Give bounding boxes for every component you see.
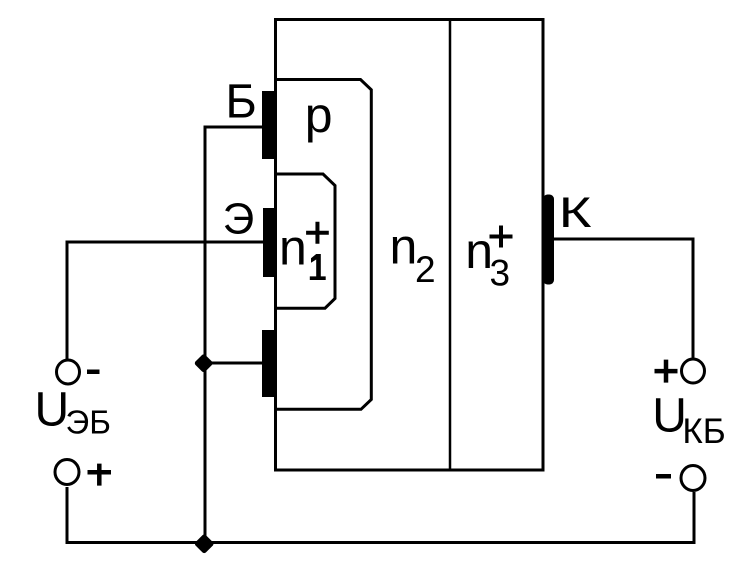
n2/n3 junction divider line — [449, 20, 452, 471]
wire right vertical to bottom rail — [693, 492, 696, 544]
wire junction to lower base contact — [204, 362, 263, 365]
svg-text:Б: Б — [225, 76, 257, 129]
p region — [276, 80, 372, 410]
label n2 region — [390, 219, 436, 291]
wire bottom rail — [66, 541, 695, 544]
wire base contact to vertical bus — [205, 126, 263, 129]
svg-text:n: n — [279, 220, 307, 276]
terminal circle U_KB plus — [682, 359, 705, 383]
wire emitter contact to left terminal — [66, 241, 265, 244]
svg-text:p: p — [305, 87, 333, 143]
label n1+ region — [279, 220, 329, 281]
terminal circle U_EB minus — [57, 360, 80, 384]
wire vertical base bus — [204, 126, 207, 544]
n1+ region — [276, 174, 336, 308]
base contact Б metallization — [262, 91, 277, 159]
terminal circle U_KB minus — [681, 466, 705, 491]
polarity plus at U_KB top — [655, 360, 678, 383]
svg-text:n: n — [390, 219, 418, 275]
node bottom rail junction — [194, 533, 215, 554]
wire left vertical to minus terminal — [66, 241, 69, 361]
svg-text:К: К — [559, 188, 592, 236]
wire plus terminal to bottom rail — [66, 487, 69, 543]
svg-text:Э: Э — [223, 195, 255, 244]
node base junction — [194, 353, 214, 373]
emitter contact Э metallization — [263, 208, 277, 277]
wire collector contact to right terminal — [554, 239, 693, 359]
collector contact К metallization — [543, 195, 554, 285]
label n3+ region — [465, 223, 512, 294]
polarity plus at U_EB bottom — [88, 464, 112, 486]
polarity minus at U_EB top — [87, 370, 100, 375]
lower base contact metallization — [262, 330, 277, 397]
svg-text:3: 3 — [490, 253, 511, 294]
terminal circle U_EB plus — [55, 460, 79, 485]
svg-text:2: 2 — [415, 249, 436, 290]
polarity minus at U_KB bottom — [656, 474, 671, 479]
semiconductor body outer box — [276, 20, 544, 471]
